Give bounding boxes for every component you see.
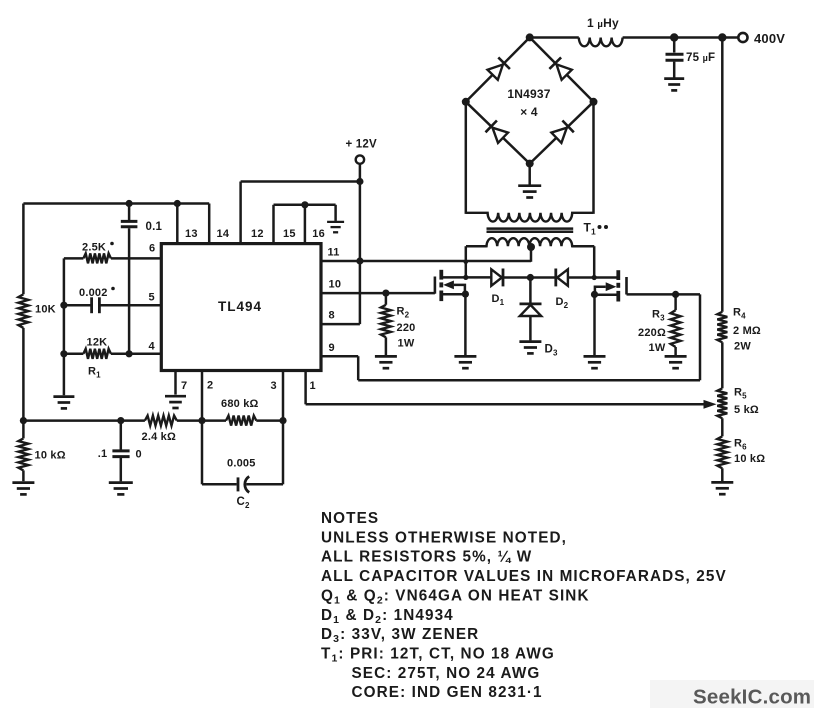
svg-text:2W: 2W [734,341,751,353]
transformer T1 primary winding [466,238,594,246]
ground (bridge bottom) [518,164,541,198]
wire: Q1 source to ground [464,294,467,355]
node: cap .1 junction [117,417,124,424]
node: R4 branch junction [718,33,726,41]
wire: bottom rail [23,419,283,422]
diode bridge bottom-right (1N4937) [551,121,573,143]
ground (10 kOhm) [12,483,34,495]
ground (left node) [53,397,74,409]
node: clamp center [527,274,534,281]
node: bridge left [462,98,470,106]
watermark SeekIC.com [650,680,814,709]
pin 2 stub [202,371,213,421]
wire: 400V output line [530,36,739,39]
node: R3 top [672,291,679,298]
svg-text:12: 12 [251,228,264,240]
node: 0.1 cap on rail A [126,200,133,207]
svg-text:8: 8 [329,310,335,322]
wire: +12V vertical feed [359,164,362,324]
svg-text:12K: 12K [87,337,108,349]
resistor R1 12K [64,337,129,380]
svg-text:16: 16 [312,228,325,240]
svg-text:10 kΩ: 10 kΩ [35,450,66,462]
pin 3 stub [271,371,284,421]
pin 15 stub [274,205,296,244]
svg-text:5: 5 [149,292,155,304]
wire: D2 to Q2 drain [568,276,618,279]
svg-text:75 µF: 75 µF [686,52,715,64]
svg-text:.1: .1 [98,448,108,460]
arrow: wiper into R5 [704,400,717,409]
transistor Q1 gate bar [434,277,437,294]
wire: rail A (pins 13,14 to left circuit) [23,202,209,205]
resistor 10 kOhm (bottom left) [18,438,65,481]
wire: bridge right arm to secondary [592,102,595,214]
pin 10 stub [321,279,386,294]
svg-text:5 kΩ: 5 kΩ [734,404,759,416]
pin 4 stub [111,341,161,354]
wire: rail pin12 to +12V [241,180,360,183]
transistor Q1 body arrow [443,281,465,294]
wire: R5 to R6 [721,418,724,436]
svg-text:SeekIC.com: SeekIC.com [693,686,811,709]
svg-text:2.5K: 2.5K [82,242,106,254]
transistor Q1 channel [439,270,443,301]
wire: Q1 source stub [441,293,465,296]
wire: rail C (pins 15,16) [274,205,336,221]
terminal 400V [738,31,785,46]
inductor 1 uHy [579,16,623,46]
pin 1 stub [306,371,316,405]
transformer T1 core [487,229,574,232]
label: T1** [584,221,609,237]
svg-text:CORE: IND GEN 8231·1: CORE: IND GEN 8231·1 [352,684,543,701]
resistor 10K [18,294,55,328]
node: filter cap junction [670,33,678,41]
svg-text:2 MΩ: 2 MΩ [733,325,761,337]
wire: bridge diamond edges [466,37,594,163]
potentiometer R5 5k [717,387,759,419]
resistor R6 10k [717,436,765,481]
pin 16 stub [305,205,325,244]
ground (cap .1/0) [109,483,133,495]
transformer T1 secondary winding [466,213,593,222]
node: 0.1 cap to pin 4 line [126,350,133,357]
node: pin 2 junction [198,417,205,424]
svg-text:1W: 1W [649,342,666,354]
wire: pin 10 to Q1 gate [386,292,435,295]
svg-text:9: 9 [329,342,335,354]
svg-text:0: 0 [136,448,142,460]
node: pin 3 junction [279,417,286,424]
diode D3 zener [520,278,559,358]
ground (R6) [711,482,733,494]
capacitor 0.1 [121,204,163,354]
transistor Q2 body arrow [595,282,617,294]
pin 12 stub [241,182,264,244]
IC U1 TL494 [161,244,321,371]
node: R2 top [382,290,389,297]
svg-text:1: 1 [310,380,316,392]
wire: 400V to R4 [721,38,724,312]
svg-text:Q1 & Q2: VN64GA ON HEAT SINK: Q1 & Q2: VN64GA ON HEAT SINK [321,587,590,606]
svg-text:D1 & D2: 1N4934: D1 & D2: 1N4934 [321,607,454,626]
svg-text:11: 11 [328,247,340,259]
pin 11 stub [321,247,360,262]
ground (pin 16 rail) [327,222,344,232]
svg-text:NOTES: NOTES [321,510,379,527]
svg-text:220Ω: 220Ω [638,327,666,339]
wire: pin 1 feedback line [306,403,706,406]
resistor 2.5K* [64,242,114,264]
wire: bridge left arm to secondary [465,102,468,214]
pin 14 stub [209,204,230,244]
transistor Q2 channel [616,270,620,301]
svg-text:T1: PRI: 12T, CT, NO 18 AWG: T1: PRI: 12T, CT, NO 18 AWG [321,645,555,664]
svg-text:2.4 kΩ: 2.4 kΩ [142,431,177,443]
svg-text:ALL RESISTORS 5%, ¼ W: ALL RESISTORS 5%, ¼ W [321,549,532,566]
resistor 680 kOhm [221,398,259,426]
wire: Q2 gate lead [627,293,701,296]
capacitor 0.002* [64,287,115,314]
ground (Q2 source) [584,356,606,368]
pin 6 stub [111,243,161,259]
wire: primary right end to Q2 drain [572,246,597,280]
resistor R3 220 1W [638,294,681,355]
ground (R3) [665,356,687,368]
capacitor C2 0.005 [202,421,283,510]
ground (pin 7) [165,396,186,408]
svg-text:SEC: 275T, NO 24 AWG: SEC: 275T, NO 24 AWG [352,665,541,682]
wire: pin 9 bus to Q2 gate [358,294,700,380]
diode bridge top-right (1N4937) [549,57,571,79]
ground (D3) [519,342,541,354]
resistor R2 220 1W [381,293,416,355]
svg-text:D3: 33V, 3W ZENER: D3: 33V, 3W ZENER [321,626,479,645]
label: 1N4937 x 4 [507,87,550,119]
svg-text:13: 13 [185,228,198,240]
svg-text:10: 10 [329,279,342,291]
resistor 2.4 kOhm [142,416,177,443]
svg-text:0.1: 0.1 [146,221,163,233]
svg-text:0.002: 0.002 [79,287,108,299]
node: pin 16 on rail C [301,201,308,208]
svg-text:4: 4 [149,341,156,353]
pin 7 stub [176,371,188,395]
node: pin 13 on rail A [174,200,181,207]
svg-text:TL494: TL494 [218,299,262,314]
svg-text:10 kΩ: 10 kΩ [734,453,765,465]
svg-text:6: 6 [149,243,155,255]
ground (Q1 source) [454,356,476,368]
pin 13 stub [177,204,197,244]
capacitor .1 / 0 [98,421,142,482]
node: +12V / pin12 rail junction [356,178,363,185]
transistor Q2 gate bar [625,277,628,295]
diode bridge top-left (1N4937) [488,57,510,79]
svg-text:× 4: × 4 [520,105,538,119]
svg-text:15: 15 [283,228,296,240]
wire: D1 to D2 [503,276,556,279]
svg-text:UNLESS OTHERWISE NOTED,: UNLESS OTHERWISE NOTED, [321,529,567,546]
diode D2 1N4934 [556,269,569,311]
wire: Q2 source to ground [593,294,596,355]
svg-text:680 kΩ: 680 kΩ [221,398,259,410]
wire: Q1 drain line to D1 [441,276,491,279]
node: Q1 source [462,291,469,298]
pin 5 stub [99,292,161,306]
wire: primary left end to Q1 drain [463,246,487,280]
node: bridge bottom [526,160,534,168]
svg-text:7: 7 [181,380,187,392]
svg-text:14: 14 [217,228,230,240]
node: far-left / bottom rail [20,417,27,424]
pin 9 stub [321,342,358,356]
resistor R4 2M 2W [717,307,761,353]
node: pin 11 / +12V junction [356,257,363,264]
svg-text:10K: 10K [35,304,56,316]
wire: center tap down [530,247,533,262]
svg-text:+ 12V: + 12V [346,139,378,151]
svg-text:400V: 400V [754,31,785,46]
notes text block [321,510,727,701]
wire: Q2 source stub [595,294,619,297]
terminal +12V [346,139,378,164]
node: Q2 source [591,291,598,298]
wire: R4 to R5 [721,342,724,388]
svg-text:1 µHy: 1 µHy [587,16,619,30]
ground (75uF cap) [664,79,684,91]
pin 8 stub [321,310,360,325]
diode bridge bottom-left (1N4937) [486,121,509,143]
wire: pin 11 to center tap (+12V rail) [360,260,531,263]
capacitor C 75uF [666,38,716,78]
node: 12K left [60,350,67,357]
svg-text:2: 2 [207,380,213,392]
diode D1 1N4934 [491,269,504,308]
svg-text:1W: 1W [398,338,415,350]
wire: left node vertical [63,258,66,395]
ground (R2) [375,356,397,368]
svg-text:0.005: 0.005 [227,457,256,469]
node: primary center tap [527,243,535,251]
node: bridge top [526,33,534,41]
svg-text:3: 3 [271,380,277,392]
svg-text:220: 220 [397,322,416,334]
node: bridge right [590,98,598,106]
svg-text:1N4937: 1N4937 [507,87,550,101]
svg-text:ALL CAPACITOR VALUES IN MICROF: ALL CAPACITOR VALUES IN MICROFARADS, 25V [321,568,727,585]
wire: far-left vertical [22,204,25,439]
node: 0.002 left [60,302,67,309]
